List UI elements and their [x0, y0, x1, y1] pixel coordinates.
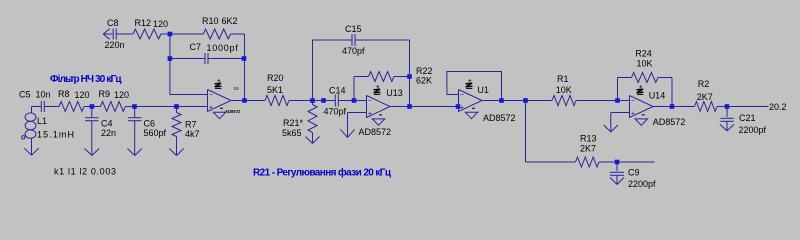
svg-text:U13: U13 — [386, 88, 403, 98]
output node label 20.2 — [769, 102, 787, 112]
svg-text:120: 120 — [75, 90, 90, 100]
wire U14 output — [653, 106, 672, 108]
label U1 — [477, 85, 489, 95]
output wire — [727, 106, 769, 108]
svg-text:R22: R22 — [416, 66, 433, 76]
capacitor C5 — [19, 90, 59, 113]
svg-text:C15: C15 — [345, 24, 362, 34]
svg-text:AD8572: AD8572 — [225, 109, 241, 114]
wire left vertical of feedback loop — [169, 34, 171, 95]
svg-text:470pf: 470pf — [342, 46, 365, 56]
V- ground triangle of U13 — [372, 115, 384, 125]
wire — [170, 33, 203, 35]
svg-text:10n: 10n — [36, 90, 51, 100]
capacitor C6 with ground — [127, 107, 166, 156]
op-amp U14 — [630, 96, 654, 118]
capacitor C8 — [105, 18, 134, 50]
svg-text:4k7: 4k7 — [185, 129, 200, 139]
svg-text:R8: R8 — [58, 89, 70, 99]
svg-text:10K: 10K — [556, 85, 572, 95]
svg-text:5K1: 5K1 — [267, 85, 283, 95]
wire down from U1 output node — [526, 101, 576, 163]
label U13 — [386, 88, 403, 98]
svg-text:220n: 220n — [105, 40, 125, 50]
svg-text:C5: C5 — [19, 90, 31, 100]
pin number 19 — [234, 86, 240, 91]
svg-text:470pf: 470pf — [324, 106, 347, 116]
capacitor C9 with ground — [610, 162, 656, 189]
svg-text:AD8572: AD8572 — [483, 113, 516, 123]
svg-text:R1: R1 — [557, 74, 569, 84]
resistor R9 — [99, 89, 135, 112]
capacitor C21 with ground — [720, 107, 767, 136]
svg-text:C9: C9 — [628, 168, 640, 178]
input arrow connector — [103, 29, 112, 40]
svg-text:AD8572: AD8572 — [653, 117, 686, 127]
U14 plus input ground stub — [604, 113, 630, 133]
node R13 branch — [523, 98, 528, 103]
wire to U14 minus input — [618, 100, 630, 102]
ground under L1 — [24, 138, 39, 155]
V- ground triangle of U14 — [635, 115, 647, 125]
tiny model label AD8572 — [225, 109, 241, 114]
svg-text:120: 120 — [114, 90, 129, 100]
svg-text:L1: L1 — [37, 116, 47, 126]
wire U13 output — [390, 106, 410, 108]
coupling text k1 l1 l2 0.003 — [54, 167, 116, 177]
svg-text:R7: R7 — [185, 120, 197, 130]
svg-text:C6: C6 — [144, 119, 156, 129]
svg-text:15.1mH: 15.1mH — [37, 130, 74, 140]
svg-text:+: + — [631, 108, 636, 117]
svg-text:C21: C21 — [739, 113, 756, 123]
svg-text:R21*: R21* — [283, 118, 304, 128]
capacitor C15 feedback branch — [313, 24, 410, 101]
wire — [92, 106, 101, 108]
node C14 right / R22 branch — [352, 98, 357, 103]
node at R12/R10/C7 junction — [168, 32, 173, 37]
svg-text:−: − — [368, 96, 373, 105]
svg-text:+: + — [460, 102, 465, 111]
svg-text:C4: C4 — [101, 119, 113, 129]
capacitor C14 — [313, 86, 355, 117]
wire to op-amp plus input — [177, 106, 208, 108]
op-amp U12 — [208, 90, 232, 112]
label AD8572 of U13 — [359, 127, 392, 137]
node C21 top — [725, 104, 730, 109]
V+ supply arrow of U1 — [466, 79, 473, 89]
title: R21 phase adjustment 20 kHz — [253, 167, 392, 179]
resistor R7 with ground — [169, 107, 199, 156]
svg-text:R20: R20 — [267, 73, 284, 83]
inductor L1 — [22, 107, 74, 140]
wire to op-amp minus input — [170, 94, 208, 96]
svg-text:C14: C14 — [329, 86, 346, 96]
svg-text:1000pf: 1000pf — [207, 43, 239, 53]
svg-text:+: + — [368, 108, 373, 117]
svg-text:+: + — [209, 102, 214, 111]
svg-text:22n: 22n — [101, 128, 116, 138]
svg-text:−: − — [631, 96, 636, 105]
svg-text:Фільтр НЧ 30 кГц: Фільтр НЧ 30 кГц — [50, 74, 122, 85]
title: low-pass filter 30 kHz — [50, 74, 122, 85]
svg-text:R21 - Регулювання фази 20 кГц: R21 - Регулювання фази 20 кГц — [253, 167, 392, 179]
label U14 — [649, 91, 666, 101]
svg-text:R13: R13 — [580, 134, 597, 144]
svg-text:2K7: 2K7 — [697, 92, 713, 102]
svg-text:R12: R12 — [135, 18, 152, 28]
svg-text:10K: 10K — [637, 59, 653, 69]
svg-text:R24: R24 — [635, 49, 652, 59]
U13 plus input ground stub — [340, 113, 366, 138]
V- ground triangle of U1 — [465, 108, 477, 118]
label AD8572 of U1 — [483, 113, 516, 123]
node C7 right — [242, 56, 247, 61]
wire op-amp output — [231, 100, 245, 102]
svg-text:20.2: 20.2 — [769, 102, 787, 112]
resistor R21* with ground — [282, 101, 320, 144]
svg-text:5k65: 5k65 — [282, 128, 302, 138]
node C14 left pin — [321, 98, 326, 103]
wire down to U13 output line — [409, 77, 411, 107]
V+ supply arrow of U14 — [637, 85, 644, 95]
resistor R10 — [202, 16, 245, 39]
node R7 top — [174, 104, 179, 109]
wire to R2 — [672, 106, 695, 108]
svg-text:−: − — [460, 90, 465, 99]
node U14 output / R24 tap — [670, 104, 675, 109]
resistor R8 — [58, 89, 92, 112]
node U1 plus input pin — [456, 104, 461, 109]
node first op-amp output — [242, 98, 247, 103]
wire — [245, 100, 266, 102]
wire right vertical of feedback loop — [244, 34, 246, 101]
capacitor C4 with ground — [85, 107, 117, 156]
resistor R2 — [695, 79, 728, 111]
svg-text:U14: U14 — [649, 91, 666, 101]
node C9 top — [615, 160, 620, 165]
node U14 minus / R24 branch — [615, 98, 620, 103]
node U13 output — [407, 104, 412, 109]
op-amp U1 — [459, 90, 483, 112]
resistor R24 feedback — [618, 49, 673, 107]
svg-text:19: 19 — [234, 86, 240, 91]
wire U13 output to U1 plus input — [410, 106, 459, 108]
node R8/R9/C4 — [90, 104, 95, 109]
node R9/C6 — [132, 104, 137, 109]
resistor R1 — [552, 74, 618, 106]
resistor R12 — [133, 18, 170, 39]
node R22/C15 right — [407, 74, 412, 79]
capacitor C7 — [170, 42, 244, 64]
wire main line to R7 node — [135, 106, 177, 108]
node C7 left — [168, 56, 173, 61]
svg-text:R2: R2 — [698, 79, 710, 89]
svg-text:R9: R9 — [99, 89, 111, 99]
svg-text:AD8572: AD8572 — [359, 127, 392, 137]
V- ground triangle of first op-amp — [213, 108, 225, 118]
resistor R13 — [576, 134, 618, 168]
svg-text:k1 l1 l2 0.003: k1 l1 l2 0.003 — [54, 167, 116, 177]
wire C14 to U13 minus input — [354, 100, 367, 102]
svg-text:560pf: 560pf — [144, 128, 167, 138]
svg-text:−: − — [209, 90, 214, 99]
op-amp U13 — [367, 96, 391, 118]
svg-text:62K: 62K — [416, 76, 432, 86]
V+ supply arrow of U13 — [374, 85, 381, 95]
svg-text:R10: R10 — [202, 16, 219, 26]
svg-text:6K2: 6K2 — [222, 16, 238, 26]
svg-text:U1: U1 — [477, 85, 489, 95]
node U1 feedback tap — [499, 98, 504, 103]
resistor R22 feedback — [354, 66, 433, 101]
V+ supply arrow of first op-amp — [215, 79, 222, 89]
svg-text:C7: C7 — [190, 42, 202, 52]
svg-text:2200pf: 2200pf — [628, 179, 656, 189]
wire — [502, 100, 526, 102]
label AD8572 of U14 — [653, 117, 686, 127]
svg-text:C8: C8 — [107, 18, 119, 28]
svg-text:120: 120 — [153, 19, 168, 29]
wire to R1 — [526, 100, 553, 102]
wire stub right of C9 — [617, 161, 655, 163]
wire U1 output — [482, 100, 502, 102]
U1 feedback loop wire — [447, 72, 502, 101]
resistor R20 — [265, 73, 313, 106]
svg-text:2200pf: 2200pf — [739, 125, 767, 135]
svg-text:2K7: 2K7 — [580, 144, 596, 154]
node R20/C15/R21* — [310, 98, 315, 103]
